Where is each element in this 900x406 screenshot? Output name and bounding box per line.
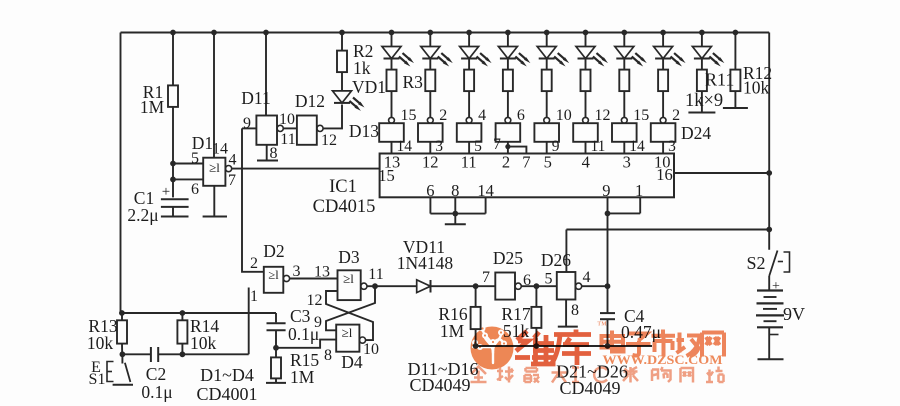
pin bubble buffer input 2 [660,117,666,123]
node R1 top junction [170,30,176,36]
pin bubble buffer input 2 [427,117,433,123]
wire R12 top [734,33,736,70]
ground under R15 [266,382,286,384]
node D1 input 6 junction [170,177,176,183]
watermark slogan row [471,367,724,383]
wire column 5 to buffer input [546,91,548,117]
node LED column 5 rail junction [544,30,550,36]
resistor R5 column [468,59,470,70]
watermark text weiku [515,330,591,366]
wire D1 output to IC1 pin 15 [232,168,380,170]
ground under C1 [161,216,189,218]
node R14 top junction [180,310,186,316]
node LED column 3 rail junction [466,30,472,36]
wire D26 pin 8 to ground [565,300,567,327]
inverter D25 CD4049 [495,273,515,300]
node R17 bottom junction [534,343,540,349]
LED VD6 [546,33,548,47]
LED VD9 [662,33,664,47]
ground under R12 [723,107,748,109]
wire D25 to D26 [521,285,556,287]
resistor R6 column [507,59,509,70]
wire down to D26 vdd [565,230,567,273]
wire R1 bottom to C1 [172,107,174,197]
node pin16 rail junction [766,170,772,176]
wire D11 input down to D2 pin 2 [242,128,264,271]
wire battery negative [768,327,770,359]
wire to D1 pin 5 [173,163,203,165]
resistor R14 10k [181,313,183,320]
wire R2 to VD1 [341,72,343,90]
wire bias line [121,312,277,314]
wire cross coupling D4 out to D3 pin 12 [326,291,373,340]
IC U1 CD4015 shift register box [380,154,674,198]
node R2 top junction [339,30,345,36]
inverter D26 CD4049 [557,272,576,300]
wire column 1 to buffer input [391,91,393,117]
node D26 output C4 junction [605,283,611,289]
LED VD4 [468,33,470,47]
node battery line right junction [766,227,772,233]
pin bubble buffer input 4 [466,117,472,123]
node R12 top junction [733,30,739,36]
buffer D20 [612,123,637,142]
resistor R13 10k [121,313,123,320]
wire right border vertical [768,33,770,250]
pin bubble buffer input 15 [389,117,395,123]
resistor R12 10k [730,70,740,92]
node LED column 4 rail junction [505,30,511,36]
wire D12 output to VD1 branch [323,105,342,129]
wire column 8 to buffer input [662,91,664,117]
pin bubble buffer input 12 [583,117,589,123]
resistor R1 [168,85,178,107]
inverter D11 CD4049 [256,116,277,145]
wire column 6 to buffer input [585,91,587,117]
wire D11 pin 8 to ground [266,145,268,161]
node R16 bottom junction [473,343,479,349]
resistor R4 column [429,59,431,70]
pin bubble D26 output 4 [576,283,582,289]
LED VD2 [391,33,393,47]
wire IC1 pins 9-1 junction [607,197,609,213]
wire column 4 to buffer input [507,91,509,117]
pin bubble D25 output 6 [515,283,521,289]
node C3 R15 junction [273,345,279,351]
node R13 top junction [119,310,125,316]
buffer D17 [496,123,521,142]
wire battery positive line [566,229,769,231]
wire buffer output pin 14 to IC1 [623,142,625,154]
node LED column 7 rail junction [621,30,627,36]
buffer D13 [379,123,404,142]
ground under D11 [257,160,278,162]
node R13 bottom junction [120,351,126,357]
resistor R8 column [585,59,587,70]
wire R1 top [172,33,174,86]
wire D4 pin 8 [276,340,336,348]
wire IC1 pin 16 to right rail [674,172,769,174]
capacitor C3 0.1u [275,313,277,322]
node pins 9-1 junction [605,211,611,217]
ground under S1 [113,384,133,386]
watermark text dzscw [602,330,725,357]
nor gate D4 CD4001 [336,325,359,352]
wire buffer output pin 11 to IC1 [585,142,587,154]
watermark logo circle [471,327,514,370]
inverter D12 CD4049 [297,116,317,145]
wire to D1 pin 6 [173,178,203,180]
resistor R17 51k [535,286,537,307]
node LED column 8 rail junction [660,30,666,36]
wire column 2 to buffer input [429,91,431,117]
ground under R11 [688,112,715,114]
wire R11 bottom [701,91,703,112]
resistor R7 column [546,59,548,70]
buffer D16 [457,123,482,142]
LED VD7 [585,33,587,47]
LED VD8 [623,33,625,47]
wire cross coupling D3 out to D4 pin 9 [326,286,375,330]
LED VD10 [701,33,703,47]
pin bubble buffer input 15 [621,117,627,123]
node R14 bottom junction [180,351,186,357]
svg-text:WWW.DZSC.COM: WWW.DZSC.COM [603,353,723,367]
wire D3 output [367,285,417,287]
wire R2 top [341,33,343,51]
wire D26 output to C4 node [582,285,608,287]
buffer D18 [534,123,559,142]
wire D2 output to D3 pin 13 [290,278,338,280]
wire buffer output pin 14 to IC1 [391,142,393,154]
node D3 output junction [372,283,378,289]
pin bubble D11 output 10 [277,125,283,131]
wire buffer output pin 3 to IC1 [662,142,664,154]
wire bottom ground rail [476,345,652,347]
capacitor C4 0.47u [607,286,609,313]
buffer D19 [573,123,598,142]
pin bubble D3 output 11 [361,283,367,289]
wire top supply rail [121,32,770,34]
wire S2 to battery [768,276,770,291]
capacitor C2 0.1u [122,353,150,355]
wire column 3 to buffer input [468,91,470,117]
wire D1 pin 14 from rail [213,33,215,158]
wire D1 pin 7 to ground [213,186,215,217]
pin bubble D4 output 10 [359,337,365,343]
resistor R9 column [623,59,625,70]
wire column 7 to buffer input [623,91,625,117]
resistor R3 column [391,59,393,70]
nor gate D2 CD4001 [264,267,284,293]
pin bubble buffer input 10 [544,117,550,123]
wire left border vertical [120,33,122,314]
wire D11 output to D12 [283,127,297,129]
ground under D26 [558,326,578,328]
wire buffer output to IC1 pins 2 and 7 [507,142,509,154]
nor gate D3 CD4001 [338,270,361,300]
wire D11 top from rail [265,33,267,116]
wire D11 input pin 9 [242,127,256,129]
resistor R10 column [662,59,664,70]
node LED column 1 rail junction [389,30,395,36]
node LED column 2 rail junction [427,30,433,36]
pin bubble D2 output 3 [283,275,289,281]
LED VD5 [507,33,509,47]
node pins 2-7 tie [505,144,510,149]
op-amp gate D1 CD4001 [203,158,225,186]
node R17 top junction [534,283,540,289]
node C4 bottom junction [605,343,611,349]
resistor R16 1M [475,286,477,307]
ground under IC1 [445,223,466,225]
wire IC1 pins 6-8-14 to ground [429,197,431,213]
resistor R11 column [701,59,703,70]
node LED column 6 rail junction [583,30,589,36]
wire VD11 to D25 [431,285,496,287]
pin bubble D1 output [226,166,232,172]
buffer D15 [418,123,443,142]
resistor R2 1k [337,51,347,73]
wire up to D2 pin 1 [248,288,250,355]
node D11 vdd junction [263,30,269,36]
node R16 top junction [473,283,479,289]
resistor R15 1M [275,348,277,358]
wire pins 9-1 down to D26 output node [607,213,609,286]
wire R12 bottom [734,91,736,108]
wire buffer output pin 3 to IC1 [429,142,431,154]
ground under battery [758,358,784,360]
wire buffer output pin 9 to IC1 [546,142,548,154]
pin bubble buffer input 6 [505,117,511,123]
node D1 vdd junction [211,30,217,36]
ground under D1 [203,216,227,218]
node LED column 9 rail junction [699,30,705,36]
pin bubble D12 output 12 [317,125,323,131]
node pins 6-8-14 junction [452,211,458,217]
node D1 input 5 junction [170,161,176,167]
LED VD1 [333,91,352,103]
buffer D24 [651,123,676,142]
svg-text:™: ™ [597,320,607,331]
LED VD3 [429,33,431,47]
wire buffer output pin 5 to IC1 [468,142,470,154]
